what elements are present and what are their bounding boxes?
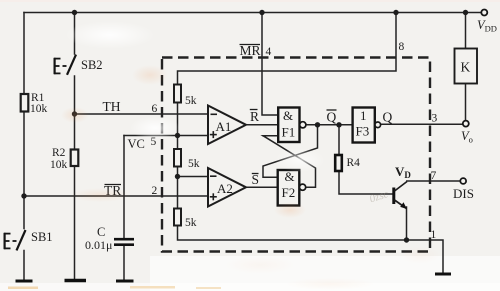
terminal VDD [481, 10, 487, 16]
wire: second vertical above SB2 [74, 13, 76, 55]
buffer F3 [353, 108, 375, 143]
wire: divider 5k1 to 5k2 [177, 103, 179, 150]
wire: VDD tap to relay K [465, 13, 467, 49]
svg-text:4: 4 [266, 46, 272, 58]
wire: divider 5k2 to 5k3 [177, 167, 179, 209]
svg-text:1: 1 [431, 229, 437, 241]
resistor R1 [21, 94, 29, 112]
junction node: top rail / MR branch [259, 10, 264, 15]
wire: SB2 to TH node [74, 76, 76, 150]
svg-text:A1: A1 [216, 119, 232, 134]
capacitor C plates [114, 238, 134, 241]
terminal Vo [463, 121, 469, 127]
junction node: top rail / relay K branch [463, 10, 468, 15]
svg-text:SB2: SB2 [81, 58, 103, 72]
junction node: TH node [72, 111, 77, 116]
resistor R2 [71, 150, 79, 167]
wire: VC line from divider to pin 5 corner [124, 135, 208, 137]
svg-text:F3: F3 [356, 124, 370, 139]
ground under C [116, 280, 134, 283]
junction node: Qbar wire to cross coupling [315, 122, 320, 127]
NAND gate F1 [278, 108, 299, 143]
wire: left vertical above R1 [23, 13, 25, 95]
svg-text:7: 7 [431, 170, 437, 182]
junction node: top rail / SB2 branch [72, 10, 77, 15]
wire: Q output node to R4 [338, 125, 340, 155]
wire: VC vertical down to capacitor C [123, 136, 125, 239]
svg-text:3: 3 [432, 113, 438, 125]
wire: relay K down to Vo node [465, 84, 467, 121]
svg-text:VC: VC [128, 137, 145, 151]
svg-text:A2: A2 [217, 181, 233, 196]
op-amp comparator A2 [208, 168, 246, 207]
F3 output bubble [375, 122, 381, 128]
wire: TH line to A1 inverting input, pin 6 [75, 113, 209, 115]
scan artifact smudges [65, 21, 155, 49]
wire: MR pin 4 vertical into F1 [262, 13, 278, 116]
wire: DIS pin 7 line [407, 180, 460, 182]
wire: 5k3 down and internal ground bus to pin 1 [178, 226, 444, 273]
switch SB1 [4, 230, 26, 250]
svg-text:K: K [461, 60, 471, 75]
wire: R4 to transistor base [339, 171, 393, 194]
op-amp comparator A1 [208, 106, 246, 145]
wire: divider tap to A2 inverting input [178, 176, 209, 178]
resistor 5k lower [174, 209, 181, 226]
junction node: Qbar wire to R4 [336, 122, 341, 127]
svg-text:10k: 10k [30, 103, 48, 115]
F1 output bubble [300, 122, 306, 128]
resistor 5k upper [174, 85, 181, 103]
svg-text:1: 1 [360, 108, 367, 123]
svg-text:Q: Q [383, 110, 393, 125]
dashed IC boundary box [162, 58, 430, 252]
wire: SB1 to ground [23, 251, 25, 281]
NAND gate F2 [278, 170, 300, 206]
wire: VDD top rail [24, 12, 481, 14]
wire: cross-coupling F1 output down to F2 input [263, 125, 318, 178]
svg-text:SB1: SB1 [31, 230, 53, 244]
wire: TR line to A2 non-inverting input, pin 2 [24, 195, 208, 197]
ground under SB1 [16, 280, 33, 283]
svg-text:5k: 5k [185, 95, 197, 107]
svg-text:0.01μ: 0.01μ [85, 238, 112, 252]
wire: emitter down to ground bus [406, 207, 408, 240]
ground at pin 1 [435, 273, 451, 276]
svg-text:2: 2 [152, 185, 158, 197]
junction node: TR node [21, 193, 26, 198]
svg-text:MR: MR [240, 43, 261, 58]
svg-text:6: 6 [152, 103, 158, 115]
wire: A1 output Rbar to F1 [246, 124, 278, 126]
svg-text:F1: F1 [282, 125, 296, 140]
ground under R2 [65, 279, 87, 282]
wire: left vertical R1 to SB1 [23, 112, 25, 229]
wire: cross-coupling F2 output up to F1 input [263, 136, 316, 188]
switch SB2 [54, 55, 76, 75]
svg-text:Q: Q [327, 110, 337, 125]
wire: F1 output Qbar to F3 [306, 124, 353, 126]
F2 output bubble [300, 184, 306, 190]
wire: F3 output to Vo pin 3 [381, 123, 463, 125]
svg-text:C: C [97, 225, 105, 239]
wire: F1 lower input stub [263, 135, 278, 137]
svg-text:F2: F2 [282, 185, 296, 200]
wire: A2 output Sbar to F2 [246, 186, 278, 188]
terminal DIS [460, 178, 466, 184]
wire: internal VDD rail y71 [178, 13, 397, 85]
svg-text:R: R [250, 109, 259, 124]
relay K [455, 49, 478, 84]
svg-text:DIS: DIS [453, 186, 474, 201]
junction node: top rail / pin8 branch [393, 10, 398, 15]
resistor 5k middle [174, 149, 181, 167]
wire: capacitor C to ground [123, 246, 125, 281]
svg-text:R4: R4 [347, 157, 361, 169]
wire: R2 down to ground [74, 166, 76, 280]
svg-text:5k: 5k [188, 158, 200, 170]
svg-text:TH: TH [103, 99, 121, 114]
svg-text:10k: 10k [50, 159, 68, 171]
resistor R4 [335, 155, 342, 171]
svg-text:S: S [252, 172, 260, 187]
transistor VD [392, 182, 407, 210]
junction node: VC divider tap [175, 133, 180, 138]
svg-text:8: 8 [399, 41, 405, 53]
svg-text:&: & [283, 108, 293, 123]
junction node: divider tap to A2 [175, 174, 180, 179]
svg-text:5k: 5k [185, 217, 197, 229]
junction node: emitter on ground bus [404, 237, 409, 242]
svg-text:R2: R2 [52, 147, 66, 159]
